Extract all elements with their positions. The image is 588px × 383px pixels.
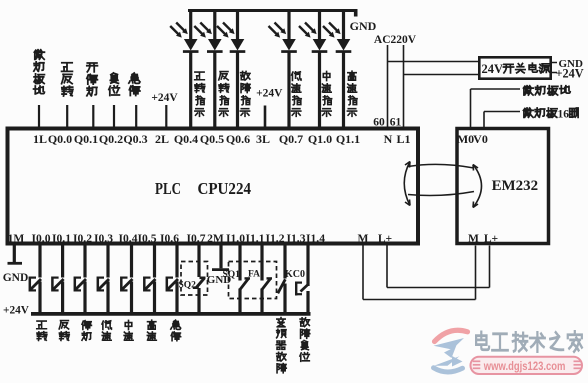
svg-text:16: 16 [558, 108, 570, 120]
svg-text:I0.4: I0.4 [118, 232, 137, 245]
svg-text:+24V: +24V [556, 67, 584, 81]
label 停机 [82, 321, 91, 341]
switch SB4 低速 pushbutton NO contact [98, 246, 109, 316]
ground stub top right [354, 9, 358, 17]
wire AC N branch to 24V PSU [388, 61, 479, 63]
switch SB8 fault reset pushbutton on I1.3 [296, 246, 308, 316]
svg-text:I1.4: I1.4 [306, 232, 325, 245]
label 微机板地 right [523, 86, 570, 95]
svg-text:24V: 24V [482, 62, 504, 76]
svg-text:Q0.6: Q0.6 [226, 132, 250, 146]
svg-text:Q0.4: Q0.4 [174, 132, 198, 146]
label 正转指示 [195, 72, 205, 116]
svg-text:I1.3: I1.3 [286, 232, 305, 245]
analog module U2 EM232 box [457, 129, 549, 244]
wire LED anode bus to GND [188, 9, 357, 12]
switch SQ2 limit switch on I0.7 [193, 246, 206, 316]
svg-text:GND: GND [350, 19, 377, 33]
PLC U1 CPU224 box [8, 129, 419, 244]
watermark logo [434, 330, 468, 372]
svg-text:+24V: +24V [256, 87, 283, 99]
svg-text:L+: L+ [484, 232, 498, 245]
wire output stub x=93.3 [92, 105, 94, 129]
label 变频器故障 [276, 318, 286, 373]
switch FA NO contact [262, 246, 272, 316]
label 中速指示 [322, 71, 332, 116]
wire LED column D2 [213, 9, 216, 129]
svg-text:L1: L1 [396, 132, 410, 146]
label PLC CPU224 [155, 179, 251, 198]
svg-text:Q0.3: Q0.3 [123, 132, 147, 146]
svg-text:I0.0: I0.0 [31, 232, 50, 245]
switch SB1 正转 pushbutton NO contact [30, 246, 41, 316]
label 急停 [129, 73, 140, 95]
svg-text:Q1.0: Q1.0 [308, 132, 332, 146]
label 高速 [147, 320, 156, 340]
svg-text:CPU224: CPU224 [198, 179, 252, 198]
wire output stub x=136.2 [135, 105, 137, 129]
svg-text:Q0.0: Q0.0 [48, 132, 72, 146]
switch SB7 急停 pushbutton NO contact [167, 246, 178, 316]
svg-text:L+: L+ [378, 232, 392, 245]
svg-text:Q0.7: Q0.7 [279, 132, 303, 146]
svg-text:I0.5: I0.5 [137, 232, 156, 245]
svg-text:I0.6: I0.6 [160, 232, 179, 245]
svg-text:SQ1: SQ1 [223, 270, 241, 280]
svg-text:M0: M0 [457, 132, 474, 146]
label 故障复位 [300, 318, 310, 362]
svg-text:I0.2: I0.2 [73, 232, 92, 245]
svg-text:Q0.5: Q0.5 [200, 132, 224, 146]
label 复位 [109, 73, 120, 95]
wire LED column D5 [318, 9, 321, 129]
svg-text:2L: 2L [155, 132, 169, 146]
label 急停 [171, 320, 181, 341]
svg-text:EM232: EM232 [492, 178, 538, 194]
svg-text:Q1.1: Q1.1 [336, 132, 360, 146]
label 低速 [102, 321, 111, 340]
svg-text:I1.2: I1.2 [265, 232, 284, 245]
svg-text:AC220V: AC220V [374, 34, 417, 46]
wire V0 to microcomputer board pin16 [484, 112, 520, 129]
power bus +24V bottom [31, 312, 311, 316]
svg-text:PLC: PLC [155, 179, 181, 198]
svg-text:SQ2: SQ2 [179, 281, 197, 291]
svg-text:+24V: +24V [3, 304, 30, 316]
svg-text:V0: V0 [473, 132, 488, 146]
wire 3L stub [264, 106, 267, 129]
switch SB3 停机 pushbutton NO contact [75, 246, 86, 316]
svg-text:1M: 1M [8, 232, 25, 245]
power supply PSU1 24V switching supply box [479, 57, 550, 78]
label 中速 [124, 320, 133, 340]
wire PSU +24V dash [551, 72, 558, 74]
wire LED column D1 [189, 9, 192, 129]
wire LED column D4 [287, 9, 290, 129]
LED D6 [323, 23, 351, 53]
LED D1 [170, 23, 198, 53]
svg-text:FA: FA [248, 270, 260, 280]
watermark url bar [471, 357, 583, 374]
wire 1M to GND [8, 246, 23, 264]
LED D5 [299, 23, 327, 53]
wire M0 to microcomputer board ground [471, 89, 521, 129]
label 高速指示 [347, 71, 357, 116]
wire AC L1 branch to 24V PSU [404, 74, 479, 76]
switch KC0 relay contact on I1.2 [278, 246, 286, 316]
wire PLC L+ to EM232 L+ [387, 246, 490, 288]
svg-text:I0.7: I0.7 [186, 232, 205, 245]
wire 2M to GND [212, 246, 229, 270]
switch SQ1 NO contact [240, 246, 250, 316]
label 开停机 [87, 63, 98, 96]
wire PLC M to EM232 M [363, 246, 476, 300]
svg-text:www.dgjs123.com: www.dgjs123.com [483, 359, 565, 373]
label 微机板16脚 right [523, 108, 578, 120]
label 故障指示 [240, 71, 250, 116]
svg-text:I1.1: I1.1 [245, 232, 264, 245]
dashed enclosure SQ1 FA [229, 262, 277, 299]
wire output stub x=166.3 [165, 105, 167, 129]
svg-text:Q0.1: Q0.1 [74, 132, 98, 146]
svg-text:3L: 3L [256, 132, 270, 146]
wire output stub x=39 [38, 105, 40, 129]
wire AC N vertical [387, 45, 389, 129]
svg-text:GND: GND [3, 272, 29, 284]
switch SB5 中速 pushbutton NO contact [121, 246, 132, 316]
svg-text:Q0.2: Q0.2 [99, 132, 123, 146]
label 微机板地 [34, 50, 45, 94]
switch SB6 高速 pushbutton NO contact [144, 246, 155, 316]
watermark text 电工技术之家 [476, 331, 582, 351]
wire LED column D3 [236, 9, 239, 129]
svg-text:N: N [384, 132, 393, 146]
label 正反转 [62, 63, 73, 96]
LED D4 [269, 23, 297, 53]
switch SB2 反转 pushbutton NO contact [52, 246, 63, 316]
svg-text:M: M [468, 232, 479, 245]
svg-text:I0.3: I0.3 [94, 232, 113, 245]
wire output stub x=67.2 [66, 105, 68, 129]
svg-text:M: M [358, 232, 369, 245]
label 低速指示 [292, 72, 302, 117]
svg-text:2M: 2M [207, 232, 224, 245]
label 反转 [59, 321, 69, 341]
label 反转指示 [219, 72, 229, 117]
label 正转 [37, 321, 47, 340]
svg-text:I1.0: I1.0 [226, 232, 245, 245]
ribbon cable between PLC and EM232 [404, 162, 481, 208]
wire PSU GND dash [551, 62, 558, 64]
wire output stub x=114 [113, 105, 115, 129]
svg-text:1L: 1L [33, 132, 47, 146]
svg-text:I0.1: I0.1 [52, 232, 71, 245]
svg-text:KC0: KC0 [285, 269, 305, 280]
LED D2 [194, 23, 222, 53]
wire LED column D6 [342, 9, 345, 129]
svg-text:+24V: +24V [151, 92, 178, 104]
dashed enclosure SQ2 [181, 262, 208, 296]
LED D3 [217, 23, 245, 53]
label 24V开关电源 [482, 62, 504, 76]
wire AC L1 vertical [403, 45, 405, 129]
